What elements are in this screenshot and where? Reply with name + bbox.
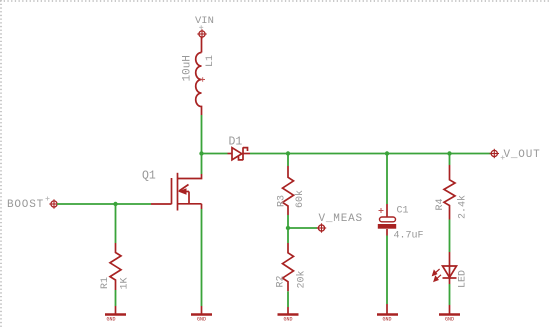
resistor R1 — [110, 243, 121, 290]
svg-text:60k: 60k — [294, 190, 306, 208]
plus mark C1 — [379, 208, 384, 213]
frame border left — [0, 0, 2, 327]
wire tap to V_MEAS — [288, 227, 317, 229]
label 10uH — [182, 55, 194, 81]
LED D2 — [443, 252, 457, 284]
wire tap to R1 — [115, 204, 117, 243]
svg-text:V_MEAS: V_MEAS — [319, 213, 363, 225]
wire node to R4 — [449, 154, 451, 166]
wire LED to ground — [449, 284, 451, 305]
resistor R3 — [283, 166, 294, 215]
wire node to C1 — [386, 154, 388, 205]
ground under Q1 — [191, 306, 212, 315]
svg-text:BOOST: BOOST — [7, 199, 44, 211]
svg-text:L1: L1 — [205, 55, 216, 67]
LED emission arrows — [433, 269, 441, 281]
transistor Q1 n-mosfet — [151, 173, 202, 211]
svg-text:LED: LED — [458, 270, 469, 288]
node junction R3 — [286, 151, 290, 155]
svg-text:R2: R2 — [276, 275, 287, 287]
label R3 — [277, 195, 288, 207]
svg-text:R3: R3 — [277, 195, 288, 207]
capacitor C1 polarized — [379, 204, 396, 236]
wire node to D1 — [202, 153, 228, 155]
resistor R2 — [283, 243, 294, 291]
wire D1 to V_OUT — [250, 153, 491, 155]
label R1 — [100, 277, 111, 289]
svg-text:D1: D1 — [229, 136, 243, 149]
svg-text:20k: 20k — [296, 270, 308, 288]
svg-text:10uH: 10uH — [182, 55, 194, 81]
label R2 — [276, 275, 287, 287]
label R4 — [435, 198, 446, 210]
Q1 bulk arrowhead — [178, 188, 187, 194]
origin cross BOOST label — [46, 197, 50, 201]
svg-text:GND: GND — [445, 317, 454, 323]
svg-text:GND: GND — [382, 317, 391, 323]
node junction R4 — [447, 151, 451, 155]
label 60k — [294, 190, 306, 208]
svg-text:2.4k: 2.4k — [457, 195, 469, 219]
ground under C1 — [377, 304, 398, 315]
wire L1 to node — [201, 115, 203, 154]
resistor R4 — [444, 165, 455, 220]
pin V_OUT — [490, 149, 499, 158]
wire R3 to R2 — [287, 215, 289, 243]
wire R1 to ground — [115, 290, 117, 306]
svg-text:R4: R4 — [435, 198, 446, 210]
label 20k — [296, 270, 308, 288]
origin cross VIN label — [199, 25, 203, 29]
node junction — [199, 151, 203, 155]
svg-text:Q1: Q1 — [142, 170, 156, 183]
origin cross V_OUT label — [501, 156, 505, 160]
svg-text:C1: C1 — [397, 206, 409, 217]
pin VIN — [197, 29, 206, 38]
svg-text:GND: GND — [106, 317, 115, 323]
svg-text:VIN: VIN — [195, 15, 214, 27]
inductor L1 — [196, 53, 202, 116]
node junction V_MEAS tap — [286, 226, 290, 230]
label L1 — [205, 55, 216, 67]
pin BOOST — [49, 199, 58, 208]
ground under LED — [439, 305, 460, 315]
node junction C1 — [385, 151, 389, 155]
pin V_MEAS — [317, 223, 326, 232]
wire BOOST to gate — [57, 203, 151, 205]
ground under R2 — [278, 307, 299, 315]
label 2.4k — [457, 195, 469, 219]
wire node to Q1 drain — [201, 154, 203, 175]
label LED — [458, 270, 469, 288]
wire C1 to ground — [386, 236, 388, 305]
svg-text:V_OUT: V_OUT — [504, 149, 541, 161]
label 1K — [120, 277, 131, 289]
origin cross L1 — [201, 77, 206, 82]
wire node to R3 — [287, 154, 289, 167]
wire R2 to ground — [287, 291, 289, 307]
diode D1 (schottky) — [228, 147, 251, 160]
ground under R1 — [105, 306, 126, 315]
wire VIN pin to L1 — [201, 38, 203, 53]
svg-text:4.7uF: 4.7uF — [394, 231, 424, 242]
svg-text:R1: R1 — [100, 277, 111, 289]
svg-text:1K: 1K — [120, 277, 131, 289]
svg-text:GND: GND — [283, 317, 292, 323]
wire R4 to LED — [449, 220, 451, 253]
wire Q1 source to ground — [201, 209, 203, 306]
node junction R1 tap — [113, 202, 117, 206]
frame border top — [0, 0, 550, 2]
svg-text:GND: GND — [197, 317, 206, 323]
